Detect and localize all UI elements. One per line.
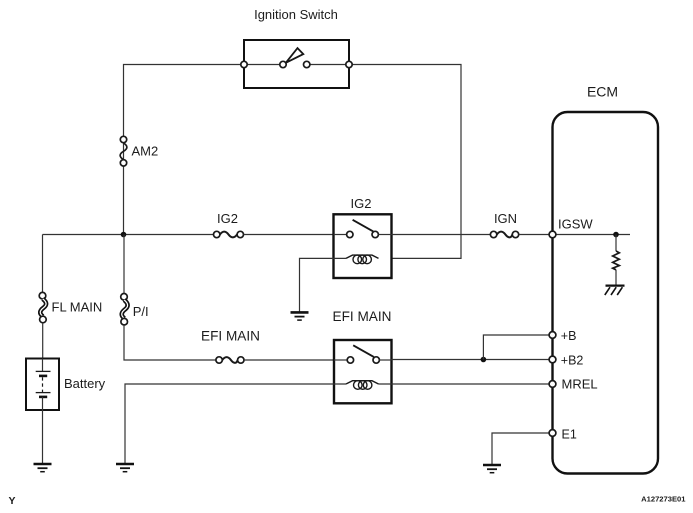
svg-text:E1: E1: [562, 428, 577, 442]
wire branch up to ECM pin +B: [483, 335, 552, 360]
relay EFI MAIN switch arm: [353, 345, 374, 357]
ground below battery: [34, 464, 52, 472]
wire from resistor to chassis ground: [615, 270, 617, 286]
ground below EFI MAIN relay coil line: [116, 464, 134, 472]
relay IG2 wire to left contact: [334, 234, 347, 236]
fusible link FL MAIN bottom circle: [40, 316, 47, 323]
relay EFI MAIN right contact circle: [373, 357, 379, 363]
relay EFI MAIN box: [334, 340, 392, 403]
ECM pin +B: [549, 332, 556, 339]
relay EFI MAIN left contact circle: [347, 357, 353, 363]
svg-text:A127273E01: A127273E01: [641, 495, 686, 504]
battery cell 1 negative plate: [39, 375, 47, 378]
ECM pin E1: [549, 430, 556, 437]
ignition switch terminal circle left: [241, 61, 247, 67]
battery cell 1 positive plate: [36, 370, 51, 372]
battery internal top wire: [42, 359, 44, 372]
svg-text:EFI MAIN: EFI MAIN: [201, 329, 260, 344]
wire from ignition switch output down to IG2 relay coil: [349, 65, 461, 259]
svg-text:+B2: +B2: [561, 354, 584, 368]
wire inside ECM from IGSW pin: [553, 234, 631, 236]
battery dashed connector: [42, 377, 44, 392]
relay IG2 coil loop 3: [363, 255, 372, 264]
resistor (IGSW pull-down): [613, 251, 620, 270]
junction node at AM2 / P/I: [121, 232, 127, 238]
fuse IGN left circle: [490, 231, 496, 237]
relay IG2 switch arm: [353, 220, 374, 232]
fusible link P/I top circle: [121, 294, 128, 301]
fusible link P/I body: [122, 300, 128, 318]
battery box: [26, 359, 59, 411]
ignition switch lever: [286, 48, 304, 63]
fusible link FL MAIN vertical wire from main line: [42, 235, 44, 293]
wire battery to ground: [42, 410, 44, 463]
fuse IG2 right circle: [237, 231, 243, 237]
wire inside ignition switch box (fixed contact to right terminal): [310, 64, 349, 66]
fuse EFI MAIN wave: [222, 357, 237, 363]
ECM box: [553, 112, 659, 474]
fuse EFI MAIN right circle: [238, 357, 244, 363]
ignition switch movable contact circle: [280, 61, 286, 67]
ECM pin +B2: [549, 356, 556, 363]
wire from IG2 relay to fuse IGN: [392, 234, 491, 236]
relay IG2 coil loop 2: [358, 255, 367, 264]
svg-text:P/I: P/I: [133, 304, 149, 319]
fuse IGN right circle: [512, 231, 518, 237]
relay EFI MAIN coil top line: [346, 381, 379, 384]
fusible link P/I bottom circle: [121, 318, 128, 325]
wire P/I down and right to fuse EFI MAIN: [124, 325, 216, 360]
ignition switch terminal circle right: [346, 61, 352, 67]
fuse AM2 wave: [120, 143, 127, 160]
relay IG2 right contact circle: [372, 231, 378, 237]
svg-text:IG2: IG2: [217, 211, 238, 226]
svg-text:FL MAIN: FL MAIN: [52, 300, 103, 315]
wire EFI MAIN relay coil to ECM pin MREL: [379, 383, 553, 385]
relay EFI MAIN coil loop 1: [354, 381, 363, 390]
wire from node down to resistor: [615, 235, 617, 252]
fuse AM2 bottom circle: [120, 160, 126, 166]
relay IG2 box: [334, 214, 392, 278]
fuse IG2 wave: [220, 232, 237, 238]
ground below IG2 relay coil: [291, 312, 309, 320]
wire from AM2 corner to ignition switch box: [124, 65, 245, 235]
fuse IGN wave: [497, 232, 513, 238]
svg-text:+B: +B: [561, 329, 577, 343]
main battery feed wire (horizontal): [43, 234, 214, 236]
fusible link FL MAIN top circle: [39, 292, 46, 299]
battery cell 2 positive plate: [36, 392, 51, 394]
ignition switch box: [244, 40, 349, 88]
svg-text:ECM: ECM: [587, 84, 618, 100]
battery cell 2 negative plate: [39, 396, 47, 399]
wire from fuse IGN to ECM pin IGSW: [519, 234, 553, 236]
wire EFI MAIN relay coil left to ground: [125, 384, 346, 463]
ECM pin MREL: [549, 381, 556, 388]
fuse IG2 left circle: [214, 231, 220, 237]
wire inside ignition switch box (left terminal to movable contact): [244, 64, 280, 66]
relay IG2 wire from right contact through box: [378, 234, 391, 236]
junction node at pull-down resistor: [613, 232, 619, 238]
svg-text:Battery: Battery: [64, 376, 106, 391]
svg-text:Y: Y: [9, 495, 16, 507]
wire from fuse EFI MAIN to EFI MAIN relay: [244, 359, 334, 361]
fusible link P/I vertical wire from junction: [123, 235, 125, 294]
wire ECM pin E1 to ground: [492, 433, 553, 464]
junction node on +B2 line: [481, 357, 487, 363]
relay EFI MAIN wire to left contact: [334, 359, 347, 361]
relay EFI MAIN coil loop 2: [358, 381, 367, 390]
svg-text:AM2: AM2: [132, 144, 159, 159]
svg-text:Ignition Switch: Ignition Switch: [254, 7, 338, 22]
svg-text:IGSW: IGSW: [558, 217, 593, 232]
svg-text:MREL: MREL: [562, 377, 598, 392]
relay IG2 coil loop 1: [353, 255, 362, 264]
chassis ground inside ECM: [605, 286, 625, 295]
svg-text:IG2: IG2: [351, 196, 372, 211]
relay IG2 left contact circle: [347, 231, 353, 237]
fuse EFI MAIN left circle: [216, 357, 222, 363]
fusible link FL MAIN body: [40, 299, 46, 316]
svg-text:EFI MAIN: EFI MAIN: [333, 309, 392, 324]
wire FL MAIN to battery: [42, 323, 44, 359]
relay EFI MAIN coil loop 3: [363, 381, 372, 390]
ignition switch fixed contact circle: [304, 61, 310, 67]
svg-text:IGN: IGN: [494, 211, 517, 226]
relay IG2 coil top line: [346, 255, 379, 258]
relay IG2 coil wire to ground (left): [300, 258, 347, 311]
ground below E1: [483, 465, 501, 473]
wire EFI MAIN relay output to ECM pin +B2: [392, 359, 553, 361]
fuse AM2 top circle: [120, 136, 126, 142]
relay EFI MAIN wire from right contact through box: [379, 359, 391, 361]
wire from fuse IG2 to IG2 relay: [244, 234, 334, 236]
ECM pin IGSW: [549, 231, 556, 238]
battery internal bottom wire: [42, 397, 44, 410]
